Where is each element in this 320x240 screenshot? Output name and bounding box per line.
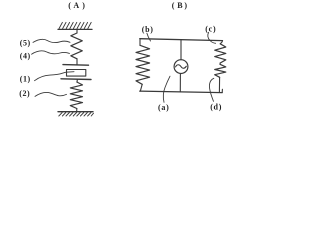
svg-text:(: ( <box>68 1 71 10</box>
wire bottom bar to spring <box>76 79 78 82</box>
ceiling hatch <box>59 22 91 28</box>
svg-text:(5): (5) <box>20 38 31 47</box>
left wire top <box>139 39 141 46</box>
label (d) <box>210 102 222 111</box>
leader (2) <box>35 92 67 96</box>
leader (1) <box>35 72 68 81</box>
title (B) <box>172 1 188 10</box>
sine wave <box>176 65 187 69</box>
joint wire <box>219 63 221 64</box>
floor hatch <box>59 113 94 117</box>
spring upper (4)/(5) <box>71 33 83 59</box>
bottom bar <box>61 78 91 81</box>
label (1) <box>20 75 31 84</box>
right wire top <box>220 41 222 44</box>
svg-text:A: A <box>73 1 79 10</box>
svg-text:(a): (a) <box>158 103 169 112</box>
AC source circle <box>174 60 188 74</box>
svg-text:): ) <box>82 1 85 10</box>
svg-text:(b): (b) <box>142 25 154 34</box>
title (A) <box>68 1 85 10</box>
leader (5) <box>33 39 70 42</box>
leader (b) <box>147 33 151 41</box>
leader (d) <box>209 78 213 101</box>
label (b) <box>142 25 154 34</box>
svg-text:): ) <box>184 1 187 10</box>
svg-text:(2): (2) <box>19 89 30 98</box>
leader (a) <box>163 76 170 102</box>
top bar <box>63 64 89 67</box>
wire ceiling to spring <box>76 29 78 33</box>
ceiling line <box>58 28 92 30</box>
leader (c) <box>208 32 216 43</box>
right wire bottom <box>218 77 220 92</box>
left wire bottom <box>140 84 142 91</box>
svg-text:(c): (c) <box>205 24 216 33</box>
middle wire bottom <box>179 74 181 92</box>
label (c) <box>205 24 216 33</box>
wire spring to floor <box>76 109 78 112</box>
spring lower (2) <box>70 82 82 109</box>
leader tip inside box <box>67 71 75 74</box>
top rail (B) <box>140 39 223 41</box>
svg-text:(1): (1) <box>20 75 31 84</box>
resistor right upper (c) <box>215 44 226 63</box>
label (5) <box>20 38 31 47</box>
middle wire top <box>180 40 182 60</box>
bottom rail (B) <box>140 91 223 93</box>
resistor right lower (d) <box>215 64 226 77</box>
svg-text:(4): (4) <box>20 51 31 60</box>
svg-text:(: ( <box>172 1 175 10</box>
label (2) <box>19 89 30 98</box>
label (a) <box>158 103 169 112</box>
resistor left (b) <box>136 45 150 84</box>
wire spring to top bar <box>76 59 78 65</box>
svg-text:(d): (d) <box>210 102 222 111</box>
leader (4) <box>32 51 70 54</box>
label (4) <box>20 51 31 60</box>
mass box (1) <box>67 70 86 77</box>
floor line <box>58 111 93 113</box>
svg-text:B: B <box>177 1 183 10</box>
bottom-right corner tick <box>221 89 223 92</box>
